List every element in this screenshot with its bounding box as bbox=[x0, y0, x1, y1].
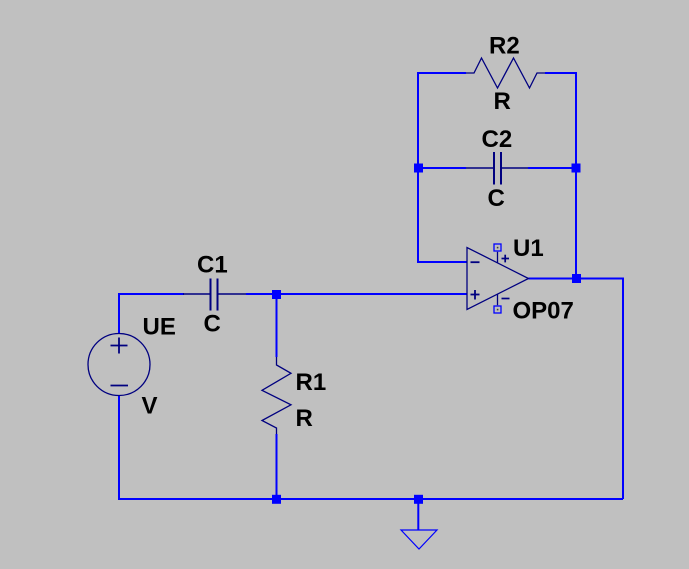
op-amp U1 inverting input minus bbox=[471, 261, 480, 263]
wire C2 row right bbox=[528, 167, 576, 169]
junction node C2 left bbox=[414, 164, 423, 173]
op-amp U1 positive supply pin bbox=[494, 244, 509, 263]
wire feedback right vertical bbox=[575, 72, 577, 279]
wire C2 row left bbox=[418, 167, 466, 169]
op-amp U1 negative supply pin bbox=[494, 294, 510, 313]
svg-text:UE: UE bbox=[143, 314, 176, 341]
svg-text:C: C bbox=[204, 311, 221, 338]
voltage source UE circle bbox=[88, 334, 150, 396]
op-amp U1 triangle bbox=[467, 248, 529, 310]
wire source top to C1 bbox=[119, 294, 184, 334]
wire feedback left vertical bbox=[418, 72, 467, 262]
wire source bottom bbox=[119, 395, 623, 499]
wire op-amp output bbox=[529, 279, 624, 500]
svg-text:C: C bbox=[488, 185, 505, 212]
resistor R2 bbox=[466, 58, 545, 88]
svg-text:R2: R2 bbox=[489, 33, 520, 60]
voltage source minus sign bbox=[111, 385, 129, 387]
svg-text:U1: U1 bbox=[513, 235, 544, 262]
junction node ground bbox=[414, 495, 423, 504]
svg-text:R: R bbox=[494, 88, 511, 115]
voltage source plus sign bbox=[111, 338, 128, 354]
svg-text:V: V bbox=[142, 393, 158, 420]
wire R1 top lead bbox=[276, 295, 278, 357]
junction node op-amp output bbox=[572, 274, 581, 283]
capacitor C1 bbox=[183, 279, 246, 311]
wire R1 bottom lead bbox=[276, 434, 278, 499]
svg-text:R: R bbox=[296, 405, 313, 432]
ground bbox=[401, 503, 437, 549]
svg-text:OP07: OP07 bbox=[513, 298, 574, 325]
resistor R1 bbox=[262, 357, 291, 434]
capacitor C2 bbox=[466, 152, 528, 185]
svg-text:R1: R1 bbox=[296, 369, 327, 396]
junction node C2 right bbox=[572, 164, 581, 173]
svg-text:C2: C2 bbox=[482, 126, 513, 153]
wire top feedback left segment bbox=[418, 72, 466, 74]
wire top feedback right segment bbox=[545, 72, 576, 74]
op-amp U1 non-inverting input plus bbox=[471, 290, 480, 300]
junction node C1 output bbox=[272, 290, 281, 299]
junction node R1 bottom bbox=[272, 495, 281, 504]
svg-text:C1: C1 bbox=[197, 252, 228, 279]
wire input to plus bbox=[246, 293, 467, 295]
